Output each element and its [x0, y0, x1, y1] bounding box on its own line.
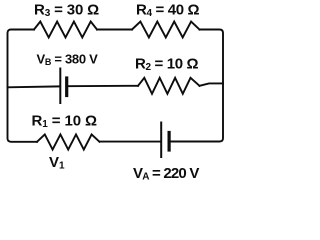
- wire top middle (between R3 and R4): [97, 29, 132, 31]
- resistor R4: [132, 22, 200, 38]
- svg-text:R1 = 10 Ω: R1 = 10 Ω: [32, 112, 98, 130]
- resistor R2: [138, 78, 200, 94]
- resistor R3: [34, 22, 97, 38]
- battery VB long plate: [59, 69, 61, 104]
- svg-text:R3 = 30 Ω: R3 = 30 Ω: [34, 2, 99, 20]
- wire left side (top-left corner, left vertical, bottom-left corner): [8, 30, 38, 142]
- wire top-right corner and right vertical: [170, 30, 223, 142]
- battery VB short plate: [65, 78, 68, 96]
- wire middle (between VB and R2): [67, 85, 138, 87]
- svg-text:R4 = 40 Ω: R4 = 40 Ω: [136, 2, 200, 20]
- wire middle-right (R2 to right vertical): [200, 83, 224, 85]
- battery VA short plate: [168, 133, 171, 151]
- wire bottom middle (R1 to battery VA): [100, 141, 161, 143]
- wire middle-left (from left vertical to battery VB): [8, 85, 60, 88]
- svg-text:R2 = 10 Ω: R2 = 10 Ω: [135, 56, 199, 74]
- resistor R1: [37, 134, 100, 149]
- battery VA long plate: [160, 123, 162, 158]
